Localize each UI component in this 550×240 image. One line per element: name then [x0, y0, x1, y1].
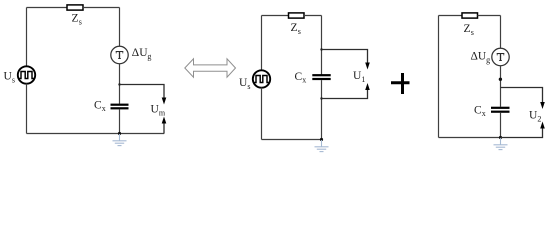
svg-text:C: C — [295, 71, 303, 83]
svg-text:s: s — [298, 27, 301, 36]
ground (C3) — [494, 138, 508, 150]
wire: C3 bottom — [439, 137, 501, 139]
wire: C1 top-left segment — [27, 7, 68, 9]
arrowhead down U_1 — [365, 63, 370, 70]
wire: C2 right upper — [321, 16, 323, 75]
wire: C1 right lower — [119, 109, 121, 133]
node: C1 ground junction — [118, 132, 121, 135]
svg-text:Z: Z — [72, 13, 79, 25]
svg-text:x: x — [302, 76, 306, 85]
wire: C3 left — [438, 16, 440, 138]
wire: C3 right lower — [500, 113, 502, 138]
node: C2 bottom junction — [320, 97, 322, 99]
node: C3 ground junction — [499, 136, 502, 139]
resistor Z_s (C1) — [67, 5, 83, 10]
wire: C1 bottom — [27, 133, 165, 135]
arrowhead down U_m — [162, 98, 167, 105]
wire: C3 top-right segment — [478, 15, 501, 17]
wire: C3 measure-branch bottom — [501, 128, 543, 138]
node: C1 cap-top junction — [118, 83, 120, 85]
arrowhead up U_1 — [365, 83, 370, 90]
wire: C1 measure-branch top — [120, 85, 165, 99]
wire: C1 left upper — [26, 8, 28, 67]
wire: C3 top-left segment — [439, 15, 463, 17]
wire: C3 right upper — [500, 16, 502, 49]
arrowhead up U_2 — [540, 122, 545, 129]
wire: C2 bottom — [262, 139, 322, 141]
arrowhead down U_2 — [540, 102, 545, 109]
arrowhead up U_m — [162, 117, 167, 124]
svg-text:x: x — [102, 104, 106, 113]
plus — [391, 81, 410, 84]
resistor Z_s (C3) — [462, 13, 478, 18]
svg-text:Z: Z — [291, 22, 298, 34]
wire: C1 top-right segment — [83, 7, 120, 9]
wire: C3 right middle — [500, 66, 502, 107]
capacitor C_x (C2) — [312, 74, 330, 76]
svg-text:ΔU: ΔU — [132, 47, 148, 59]
node: C2 ground junction — [320, 138, 323, 141]
svg-text:g: g — [486, 55, 490, 64]
wire: C2 top-right segment — [304, 15, 322, 17]
source dU_g (C1) — [111, 46, 128, 63]
ground (C2) — [315, 140, 329, 152]
resistor Z_s (C2) — [289, 13, 305, 18]
svg-text:ΔU: ΔU — [471, 51, 487, 63]
node: C2 top junction — [320, 48, 322, 50]
wire: C2 left upper — [261, 16, 263, 71]
svg-text:Z: Z — [464, 23, 471, 35]
svg-text:C: C — [474, 105, 482, 117]
wire: C2 left lower — [261, 88, 263, 140]
source dU_g (C3) — [492, 48, 509, 65]
svg-text:2: 2 — [537, 114, 541, 123]
svg-text:g: g — [147, 52, 151, 61]
svg-text:C: C — [94, 100, 102, 112]
svg-text:s: s — [247, 82, 250, 91]
node: C3 cap-top junction — [499, 78, 502, 81]
wire: C2 measure-branch bottom — [322, 90, 368, 99]
wire: C1 left lower — [26, 84, 28, 134]
wire: C2 measure-branch top — [322, 50, 368, 64]
wire: C1 right upper — [119, 8, 121, 47]
svg-text:s: s — [12, 75, 15, 84]
svg-text:x: x — [482, 109, 486, 118]
wire: C2 top-left segment — [262, 15, 289, 17]
capacitor C_x (C1) — [111, 104, 129, 106]
svg-text:1: 1 — [361, 75, 365, 84]
source U_s (C2) — [253, 70, 270, 87]
ground (C1) — [113, 134, 127, 146]
capacitor C_x (C3) — [491, 107, 510, 109]
wire: C3 measure-branch top — [501, 88, 543, 104]
wire: C1 measure-branch bottom — [163, 123, 165, 134]
svg-text:s: s — [471, 28, 474, 37]
source U_s (C1) — [18, 66, 35, 83]
wire: C1 right middle — [119, 64, 121, 104]
svg-text:m: m — [159, 108, 166, 117]
svg-text:s: s — [79, 17, 82, 26]
wire: C2 right lower — [321, 80, 323, 139]
double arrow — [185, 59, 236, 77]
